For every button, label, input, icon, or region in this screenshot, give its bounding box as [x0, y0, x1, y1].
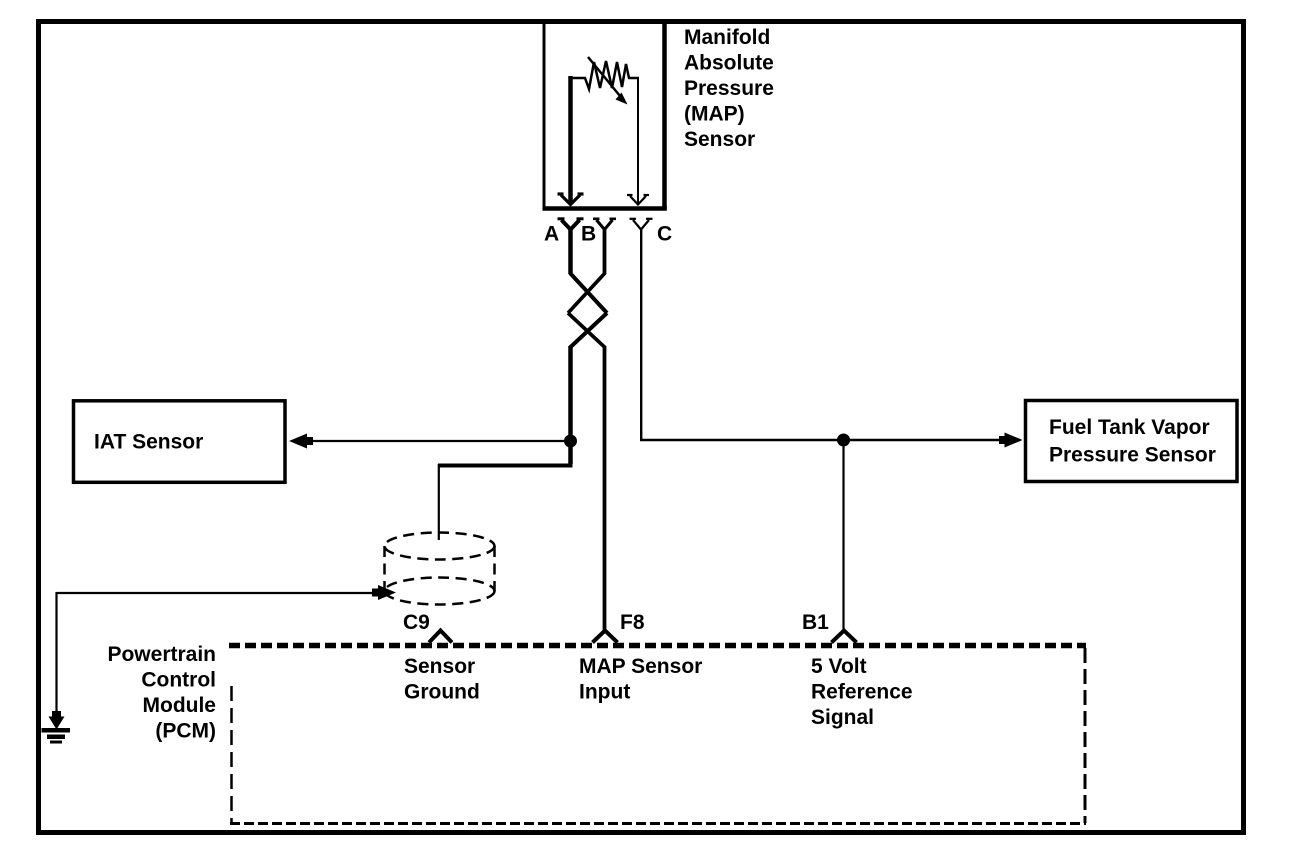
arrowhead into fuel tank vapor pressure sensor: [999, 433, 1023, 448]
ground feed wire (vertical): [55, 592, 57, 718]
svg-text:MAP Sensor: MAP Sensor: [579, 655, 702, 678]
resistor R (piezoresistive element): [569, 61, 639, 89]
junction dot (5 volt reference tap): [837, 434, 850, 447]
svg-text:Reference: Reference: [811, 681, 913, 704]
label Manifold Absolute Pressure (MAP) Sensor: [684, 26, 774, 151]
PCM dashed box bottom edge: [230, 822, 1086, 825]
arrowhead into IAT sensor: [289, 434, 313, 449]
PCM pin B1 chevron: [832, 631, 857, 643]
fuel tank vapor pressure sensor box: [1026, 401, 1238, 482]
svg-text:(MAP): (MAP): [684, 103, 745, 126]
IAT sensor wire: [306, 440, 570, 442]
wire C segment (5 volt reference): [641, 228, 1020, 440]
PCM pin F8 chevron: [593, 631, 618, 643]
svg-text:Control: Control: [141, 669, 216, 692]
PCM pin C9 chevron: [429, 631, 452, 643]
IAT sensor box: [74, 401, 286, 483]
svg-text:Sensor: Sensor: [684, 128, 755, 151]
wire drop into splice: [438, 464, 440, 540]
svg-text:B: B: [581, 223, 596, 246]
svg-text:Pressure Sensor: Pressure Sensor: [1049, 444, 1216, 467]
svg-text:C9: C9: [403, 611, 430, 634]
wire B upper segment (signal wire): [603, 228, 607, 274]
internal wire to pin C (thin): [637, 77, 639, 204]
label 5 Volt Reference Signal: [811, 655, 913, 729]
PCM dashed box left edge: [230, 686, 233, 824]
label Sensor Ground: [404, 655, 480, 704]
svg-text:B1: B1: [802, 611, 829, 634]
svg-text:C: C: [657, 223, 672, 246]
wire A upper segment (thick ground wire): [568, 228, 573, 274]
twisted pair crossover: [568, 273, 607, 348]
arrowhead into splice: [372, 585, 396, 600]
label MAP Sensor Input: [579, 655, 702, 704]
svg-text:IAT Sensor: IAT Sensor: [94, 431, 203, 454]
svg-text:Powertrain: Powertrain: [107, 643, 216, 666]
svg-text:Absolute: Absolute: [684, 52, 774, 75]
svg-text:Manifold: Manifold: [684, 26, 770, 49]
svg-text:F8: F8: [620, 611, 645, 634]
svg-text:Input: Input: [579, 681, 630, 704]
wire A lower segment to junction: [568, 346, 573, 464]
ground symbol G1: [42, 711, 71, 744]
splice grommet (dashed cylinder): [385, 533, 495, 605]
ground feed wire (horizontal): [57, 592, 378, 594]
wire from 5V junction to PCM pin B1: [842, 440, 844, 631]
wire jog from junction to splice: [438, 464, 573, 468]
variable-element diagonal arrow: [588, 57, 628, 105]
svg-text:Pressure: Pressure: [684, 77, 774, 100]
svg-text:A: A: [544, 223, 559, 246]
pin C terminal (Y connector): [630, 219, 653, 230]
junction dot (IAT sensor tap on ground wire): [564, 435, 577, 448]
internal arrowhead at pin C: [627, 195, 649, 205]
label Fuel Tank Vapor Pressure Sensor: [1049, 416, 1216, 467]
svg-text:Fuel Tank Vapor: Fuel Tank Vapor: [1049, 416, 1210, 439]
internal wire to pin A (thick): [568, 76, 573, 204]
MAP sensor box: [543, 21, 667, 210]
svg-text:(PCM): (PCM): [155, 720, 216, 743]
internal arrowhead at pin A: [558, 194, 584, 205]
svg-text:Sensor: Sensor: [404, 655, 475, 678]
svg-text:5 Volt: 5 Volt: [811, 655, 867, 678]
svg-text:Signal: Signal: [811, 706, 874, 729]
PCM dashed box top edge: [229, 643, 1086, 649]
pin B terminal (Y connector): [593, 219, 616, 230]
pin A terminal (Y connector): [558, 219, 584, 230]
label Powertrain Control Module (PCM): [107, 643, 216, 743]
svg-text:Ground: Ground: [404, 681, 480, 704]
svg-text:Module: Module: [143, 694, 217, 717]
PCM dashed box right edge: [1084, 648, 1087, 823]
wire B lower segment to PCM pin F8: [603, 346, 607, 632]
